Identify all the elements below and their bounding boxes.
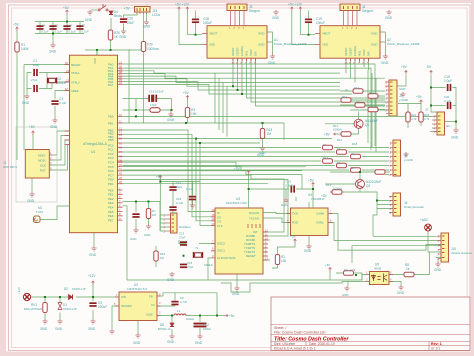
svg-text:MOSI: MOSI	[38, 158, 46, 162]
junction -5v rail	[430, 87, 432, 89]
ground C21	[190, 203, 195, 208]
resistor R24	[260, 129, 264, 139]
svg-text:1.5pF: 1.5pF	[150, 103, 157, 107]
wire LCD data vertical	[129, 50, 131, 123]
svg-text:VDD: VDD	[209, 43, 215, 47]
svg-text:GND: GND	[281, 203, 287, 207]
wire aref to C3	[55, 91, 70, 119]
svg-text:+5V: +5V	[308, 179, 315, 183]
resistor R1	[15, 42, 19, 52]
svg-text:CANL: CANL	[316, 221, 324, 225]
U1 left pin stubs	[65, 65, 70, 145]
power +5V R2	[294, 239, 297, 243]
IC U1 ATmega128 body	[70, 55, 118, 233]
svg-text:RESET: RESET	[231, 47, 235, 56]
wire U4 bottom	[308, 236, 310, 245]
svg-text:PA7: PA7	[108, 83, 114, 87]
svg-text:RESET: RESET	[71, 63, 81, 67]
ground U2 onoff	[109, 329, 114, 334]
svg-text:20uF: 20uF	[127, 21, 134, 25]
wire VCC rail y50	[85, 40, 144, 55]
svg-text:VIN: VIN	[121, 295, 126, 299]
wire rotary chain to J10	[373, 235, 441, 237]
capacitor C26	[120, 18, 127, 23]
svg-text:KiCad E.D.A. kicad (5.1.9)-1: KiCad E.D.A. kicad (5.1.9)-1	[274, 347, 316, 351]
wire long rows to J8 resistors lower	[123, 161, 390, 175]
ground A1 right	[268, 32, 273, 54]
wire RV1	[44, 297, 46, 319]
wire J3 pin to C26	[124, 12, 138, 29]
power +5V cap bank	[66, 10, 69, 14]
svg-text:GND: GND	[167, 118, 175, 122]
module A2 Pololu stepper driver body	[320, 26, 380, 59]
svg-text:RXCAN: RXCAN	[249, 211, 259, 215]
svg-text:MS1: MS1	[358, 50, 362, 56]
wire PA7	[123, 85, 353, 95]
capacitor C15b	[153, 95, 158, 102]
svg-text:Sheet: /: Sheet: /	[274, 326, 286, 330]
svg-text:blu/Nano: blu/Nano	[179, 225, 191, 229]
svg-text:B750A-13: B750A-13	[158, 327, 171, 331]
svg-text:MCP2515-x/SO: MCP2515-x/SO	[226, 201, 248, 205]
svg-text:ENABLE: ENABLE	[353, 45, 357, 56]
svg-text:CS: CS	[217, 219, 221, 223]
pin squares J7	[438, 116, 441, 132]
svg-text:Rev: 1: Rev: 1	[431, 342, 442, 346]
pin squares J8	[394, 143, 397, 175]
svg-text:+5v: +5v	[229, 314, 235, 318]
capacitor C19	[305, 19, 312, 24]
svg-text:Stepper: Stepper	[362, 9, 374, 13]
svg-text:SI: SI	[217, 211, 220, 215]
pin squares J10	[442, 236, 445, 258]
svg-text:100uF: 100uF	[203, 327, 211, 331]
svg-text:PB0: PB0	[108, 115, 114, 119]
svg-text:4N35: 4N35	[374, 267, 382, 271]
resistor cascade row1 r15	[368, 94, 378, 98]
wire PA0	[123, 64, 376, 146]
svg-text:ENABLE: ENABLE	[240, 45, 244, 56]
wire bus y143	[123, 143, 261, 225]
connector J7 I2C header	[437, 112, 445, 135]
wire R3 net	[187, 99, 189, 124]
svg-text:1M: 1M	[160, 256, 165, 260]
wire isp mosi	[49, 136, 69, 161]
switch SW1	[98, 4, 108, 11]
svg-text:RESET: RESET	[246, 254, 256, 258]
svg-text:0.1uF: 0.1uF	[286, 184, 293, 188]
resistor cascade row2 r12	[323, 145, 333, 149]
wire PA3	[123, 74, 386, 79]
svg-text:PB5: PB5	[108, 138, 114, 142]
diode D4	[109, 11, 113, 15]
svg-text:L1: L1	[177, 309, 181, 313]
wire isp sck	[49, 140, 69, 165]
ground J3	[144, 20, 149, 25]
wire D1	[59, 297, 61, 319]
svg-text:R4: R4	[344, 268, 348, 272]
fuse F29	[141, 42, 145, 52]
ground U5	[398, 285, 403, 290]
wire C9	[92, 297, 94, 319]
svg-text:GND: GND	[89, 253, 97, 257]
wire A1 pin e down	[251, 58, 385, 102]
svg-text:0.1uF: 0.1uF	[444, 99, 451, 103]
svg-text:Q1: Q1	[365, 123, 369, 127]
svg-text:+5V: +5V	[156, 175, 163, 179]
svg-text:1K: 1K	[323, 143, 327, 147]
wire R4 net	[330, 272, 362, 281]
svg-text:GND: GND	[130, 237, 136, 241]
svg-text:Id: 1/1: Id: 1/1	[431, 347, 440, 351]
svg-text:1K: 1K	[345, 88, 349, 92]
wire mid bundle 7	[123, 171, 303, 189]
wire power input rail	[31, 296, 119, 298]
power +5V U4	[312, 183, 315, 187]
IC U3 MCP2515 body	[215, 208, 263, 274]
pin squares J5	[231, 6, 245, 9]
junction Y3 left	[135, 109, 137, 111]
wire R10 net	[155, 246, 157, 267]
svg-text:TJA1051T: TJA1051T	[311, 197, 325, 201]
svg-text:C15 0.01uF: C15 0.01uF	[149, 90, 164, 94]
svg-text:I2C: I2C	[446, 124, 451, 128]
svg-text:GND: GND	[167, 340, 175, 344]
wire U4 canl	[328, 223, 441, 241]
svg-text:0.1uF: 0.1uF	[42, 30, 49, 34]
resistor R3	[185, 108, 189, 118]
resistor cascade row1 r16	[341, 98, 351, 102]
wire U3 right pin stubs	[264, 240, 271, 260]
connector ADC jack	[425, 224, 432, 231]
resistor cascade row2 r26	[351, 168, 361, 172]
wire A2 pin a	[345, 58, 347, 73]
svg-text:+5V: +5V	[29, 125, 36, 129]
svg-text:-5V: -5V	[426, 65, 432, 69]
ground J2 label area	[400, 92, 405, 97]
resistor R10	[154, 251, 158, 261]
connector J3 pins	[137, 12, 147, 14]
svg-text:1K: 1K	[351, 152, 355, 156]
ground C26	[121, 29, 126, 34]
ground RV1	[42, 319, 47, 324]
junction nano feed	[159, 181, 161, 183]
pin numbers red	[50, 26, 440, 315]
power +5V Q1	[333, 133, 337, 135]
svg-text:Size: USLetter: Size: USLetter	[274, 342, 296, 346]
ground switch	[87, 10, 92, 15]
U1 right pin stubs PB	[118, 116, 123, 143]
resistor R22	[419, 112, 423, 122]
pin squares J4	[344, 6, 358, 9]
ground Y1	[169, 272, 174, 277]
power input connector P1	[23, 293, 30, 300]
svg-text:SCK: SCK	[40, 163, 46, 167]
junction dots rail	[216, 315, 218, 317]
svg-text:+5V: +5V	[63, 6, 70, 10]
svg-text:GND: GND	[451, 136, 459, 140]
svg-text:PB1: PB1	[108, 121, 114, 125]
wire adc to harness	[428, 231, 441, 252]
capacitor C3	[51, 100, 58, 105]
wire PA2	[123, 71, 341, 73]
svg-text:1M: 1M	[152, 213, 157, 217]
power +5V A1	[178, 7, 181, 11]
svg-text:R14: R14	[369, 91, 375, 95]
junction dots bus	[135, 115, 137, 117]
wire A1 pin c down	[241, 58, 243, 94]
wire A1 pin f down	[256, 58, 386, 106]
svg-text:LCDs: LCDs	[152, 13, 160, 17]
resistor R7 PE row	[146, 209, 150, 219]
wire PA1	[123, 68, 372, 150]
svg-text:R12: R12	[337, 138, 343, 142]
connector J5 pins	[231, 11, 245, 26]
title block row line 1	[271, 324, 470, 326]
power +5V opto	[329, 268, 332, 272]
svg-text:27pF: 27pF	[31, 78, 38, 82]
svg-text:U1: U1	[91, 150, 95, 154]
crystal Y1	[193, 252, 202, 258]
opto U5 4N35 body	[370, 272, 390, 285]
diode D1 tvs	[58, 303, 62, 310]
connector J6 rotary encoder header	[393, 193, 401, 216]
svg-text:ERZ-V07D220: ERZ-V07D220	[24, 307, 43, 311]
connector J8 header	[393, 140, 401, 176]
power +5V Q2	[330, 191, 334, 193]
resistor cascade row2 r13	[351, 154, 361, 158]
svg-text:C4: C4	[42, 24, 46, 28]
svg-text:XTAL2: XTAL2	[71, 80, 80, 84]
ground U3	[234, 286, 239, 291]
svg-text:+5V: +5V	[325, 263, 330, 267]
svg-text:1K: 1K	[337, 147, 341, 151]
svg-text:R18: R18	[352, 142, 358, 146]
A1 left pin stubs	[202, 34, 207, 45]
wire resistor row1 feed	[340, 91, 385, 110]
connector J1 AVR-ISP body	[25, 150, 49, 179]
connector J10 vehicle harness header	[441, 233, 449, 262]
capacitor C14	[180, 264, 187, 269]
connector pin squares	[137, 6, 445, 258]
wire Q2 net	[325, 172, 390, 236]
capacitor C8	[171, 301, 178, 306]
wire A2 pin c	[354, 58, 356, 82]
capacitor C18	[447, 84, 452, 91]
wire C20 net	[431, 105, 456, 107]
svg-text:GND: GND	[133, 341, 141, 345]
svg-text:MS1: MS1	[245, 50, 249, 56]
svg-text:C1: C1	[151, 303, 155, 307]
wire +12v tap	[92, 284, 94, 297]
resistor cascade row1 r19	[368, 107, 378, 111]
wire mid verticals to lower bus	[215, 73, 227, 136]
wire U3 vdd power	[249, 174, 313, 208]
ground C22	[133, 228, 138, 233]
ground R24	[260, 146, 265, 151]
svg-text:VCC: VCC	[93, 58, 97, 64]
wire PE row	[123, 202, 161, 232]
inductor L1	[174, 314, 186, 316]
svg-text:Date: 2020-01-19: Date: 2020-01-19	[309, 342, 335, 346]
svg-text:VDD: VDD	[322, 43, 328, 47]
wire PE down rail	[123, 206, 128, 280]
A1 bottom pin stubs	[233, 58, 256, 61]
wire bottom double rail 2	[221, 282, 366, 293]
svg-text:STEP: STEP	[249, 49, 253, 56]
svg-text:1/4W: 1/4W	[21, 47, 28, 51]
wire xtal left gnd	[27, 73, 32, 95]
capacitor C7	[76, 25, 83, 30]
diode D5	[170, 323, 174, 327]
svg-text:GND: GND	[85, 18, 93, 22]
capacitor C9	[89, 302, 96, 307]
connector J9 pin stubs	[167, 215, 171, 231]
resistor Q2 feed	[332, 190, 342, 194]
svg-text:GND: GND	[259, 151, 265, 155]
svg-text:22pF: 22pF	[176, 185, 183, 189]
junction PE row	[135, 201, 137, 203]
svg-text:1M: 1M	[267, 132, 272, 136]
wire switch to gnd	[91, 9, 97, 11]
wire cap bank top rail	[35, 14, 84, 22]
svg-text:SLEEP: SLEEP	[236, 47, 240, 56]
wire U4 canh	[328, 214, 441, 251]
module A1 Pololu stepper driver body	[207, 26, 267, 59]
svg-text:22pF: 22pF	[33, 63, 40, 67]
wire U1 reset	[24, 65, 70, 151]
wire C18 net	[397, 75, 456, 112]
wire bus y130	[123, 130, 216, 212]
ground D1	[57, 319, 62, 324]
title block row line 4	[271, 345, 470, 347]
svg-text:Vehicle Harness: Vehicle Harness	[451, 251, 472, 255]
svg-text:FB: FB	[149, 295, 153, 299]
svg-text:DIR: DIR	[254, 51, 258, 56]
power +5V A2	[290, 7, 293, 11]
A1 bottom pin names vertical	[231, 45, 258, 56]
svg-text:Stepper: Stepper	[249, 9, 261, 13]
ground J10 bottom	[435, 262, 440, 267]
svg-text:Pololu_Breakout_A4988: Pololu_Breakout_A4988	[387, 42, 420, 46]
wire cap bank verticals	[40, 22, 80, 34]
wire mid bundle 8	[123, 175, 285, 232]
graphic box isp section	[16, 127, 57, 202]
resistor R21	[406, 112, 410, 122]
svg-text:J7: J7	[425, 108, 429, 112]
svg-text:ATmega128A-A: ATmega128A-A	[83, 142, 108, 146]
power +5V R21	[420, 100, 423, 104]
svg-text:RST: RST	[40, 168, 46, 172]
power -5V top right	[430, 71, 433, 75]
ground U2	[135, 333, 140, 338]
svg-text:GND: GND	[22, 101, 30, 105]
wire U1 gnd bottom	[93, 233, 95, 246]
wire long rows to J8 resistors	[123, 148, 390, 157]
svg-text:GND: GND	[258, 32, 264, 36]
svg-text:CLK: CLK	[217, 224, 223, 228]
capacitor C22 PE row	[132, 213, 139, 218]
A2 left pin stubs	[315, 34, 320, 45]
svg-text:1k: 1k	[406, 267, 410, 271]
U3 left pin stubs	[211, 212, 215, 258]
wire I2C bus long	[123, 115, 438, 117]
wire bottom double rail 1	[127, 275, 366, 281]
svg-text:GND: GND	[167, 278, 175, 282]
A2 bottom pin names vertical	[344, 45, 371, 56]
svg-text:100uH: 100uH	[186, 317, 194, 321]
ground xtal	[24, 94, 29, 99]
svg-text:Y1: Y1	[195, 246, 199, 250]
svg-text:100uF: 100uF	[98, 305, 107, 309]
svg-text:+5V: +5V	[401, 65, 408, 69]
IC U2 LM2576 body	[119, 292, 157, 321]
connector J8 pin stubs	[390, 143, 393, 175]
svg-text:XTAL1: XTAL1	[71, 71, 80, 75]
svg-text:Rotary Encoder: Rotary Encoder	[404, 205, 424, 209]
wire bus y123	[123, 123, 285, 140]
wire mid bundle 9	[123, 179, 289, 236]
svg-text:VMOT: VMOT	[322, 32, 331, 36]
svg-text:GND: GND	[258, 43, 264, 47]
svg-text:GND: GND	[50, 125, 58, 129]
svg-text:R16: R16	[342, 95, 348, 99]
wire A1 pin a down	[232, 58, 234, 86]
power +5V isp	[32, 131, 35, 135]
svg-text:GND: GND	[268, 61, 276, 65]
svg-text:+5V +12V: +5V +12V	[288, 3, 303, 7]
capacitor C21	[189, 196, 196, 201]
wire Q1 net	[325, 112, 359, 135]
connector J4 stepper header	[340, 4, 360, 11]
ground C9	[90, 319, 95, 324]
svg-text:100uF: 100uF	[203, 21, 212, 25]
svg-text:4.7k: 4.7k	[350, 268, 356, 272]
power +5V U3 vdd	[247, 171, 250, 175]
svg-text:GND: GND	[399, 87, 405, 91]
svg-text:GND: GND	[195, 341, 203, 345]
power +12V A2	[299, 7, 302, 11]
wire opto outputs	[389, 253, 438, 286]
U5 pin stubs	[366, 275, 394, 282]
svg-text:TH01: TH01	[36, 210, 43, 214]
resistor R5	[404, 272, 414, 276]
wire J2 stubs	[350, 102, 389, 110]
svg-text:Q2: Q2	[366, 184, 370, 188]
ground U1	[91, 246, 96, 251]
svg-text:1K: 1K	[369, 105, 373, 109]
svg-text:+5V: +5V	[290, 235, 297, 239]
svg-text:R13: R13	[323, 156, 329, 160]
diode D2	[69, 295, 73, 300]
svg-text:DIR: DIR	[367, 51, 371, 56]
svg-text:+5V: +5V	[416, 95, 423, 99]
wire xtal1	[39, 73, 70, 78]
power +5V top right	[405, 71, 408, 75]
svg-text:1000th: 1000th	[333, 187, 342, 191]
wire J2 gnd stub	[385, 82, 389, 86]
wire bus y138	[123, 139, 333, 221]
svg-text:GND: GND	[304, 249, 312, 253]
ground rail tap	[347, 281, 349, 286]
wire U3 bottom gnd	[236, 274, 238, 286]
svg-text:GND: GND	[381, 61, 389, 65]
svg-text:100uF: 100uF	[316, 21, 325, 25]
wire D5 branch	[171, 316, 173, 335]
svg-text:GND: GND	[55, 327, 63, 331]
buzzer M1	[34, 216, 41, 223]
svg-text:+5V: +5V	[13, 23, 20, 27]
